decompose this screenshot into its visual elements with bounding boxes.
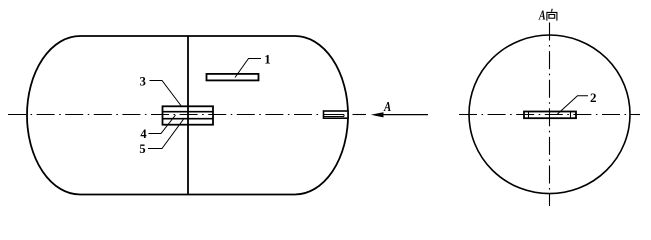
wire horizontal centerline of left view — [8, 114, 320, 116]
svg-text:4: 4 — [140, 127, 147, 141]
label xiang glyph of A-view title — [547, 9, 557, 21]
assembly inner line lower — [163, 118, 214, 120]
circle end view outline — [469, 35, 630, 194]
assembly 3-4-5 outer rectangle — [163, 106, 214, 124]
wire vertical divider of capsule — [187, 36, 189, 195]
wire horizontal centerline of circle view — [459, 114, 640, 116]
nozzle slot upper line — [324, 114, 345, 116]
view arrow A head — [371, 112, 384, 117]
plate 2 left end line — [528, 112, 530, 119]
leader line 4 — [149, 115, 176, 134]
leader line 5 — [148, 119, 184, 149]
leader line 1 — [235, 59, 261, 78]
leader line 3 — [150, 81, 183, 108]
tank capsule outline — [27, 36, 348, 195]
nozzle slot lower line — [324, 116, 345, 118]
plate 2 rectangle — [524, 112, 576, 119]
nozzle slot end cap — [343, 115, 345, 117]
svg-text:1: 1 — [264, 52, 271, 67]
svg-text:A: A — [538, 8, 545, 23]
nozzle rectangle at right wall — [324, 111, 349, 118]
plate 2 right end line — [570, 112, 572, 119]
leader line 2 — [557, 96, 588, 115]
svg-text:2: 2 — [590, 90, 597, 105]
svg-text:A: A — [383, 100, 391, 115]
view arrow A shaft — [383, 114, 429, 116]
plate 1 rectangle — [207, 74, 259, 81]
wire centerline stub right of capsule — [353, 114, 367, 116]
svg-text:3: 3 — [140, 75, 146, 89]
wire vertical centerline of circle view — [549, 23, 551, 207]
assembly inner line upper — [163, 111, 214, 113]
svg-text:5: 5 — [139, 142, 145, 156]
